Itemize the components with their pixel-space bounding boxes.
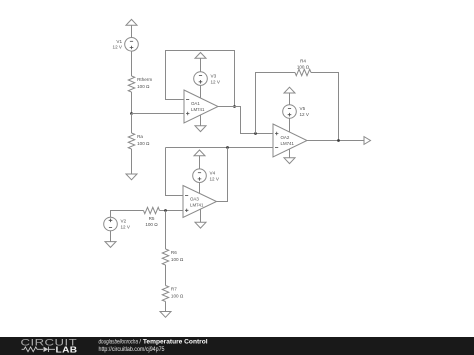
- svg-text:OA1: OA1: [191, 101, 200, 106]
- svg-text:100 Ω: 100 Ω: [171, 294, 184, 299]
- op-amp OA1: [184, 90, 218, 123]
- svg-text:http://circuitlab.com/cj94p75: http://circuitlab.com/cj94p75: [99, 346, 165, 353]
- svg-text:V2: V2: [121, 219, 127, 224]
- wire V2 up to R5: [111, 211, 144, 218]
- resistor R7: [162, 286, 168, 302]
- wire OA1 feedback output to inverting input: [166, 51, 235, 107]
- label R5 100 ohm: [145, 216, 158, 227]
- svg-text:R7: R7: [171, 287, 177, 292]
- wire V3 to OA1 V+ pin: [200, 85, 202, 97]
- op-amp OA3: [183, 186, 217, 218]
- power arrow above V3: [195, 53, 206, 59]
- svg-text:100 Ω: 100 Ω: [171, 257, 184, 262]
- wire R6 to R7: [165, 265, 167, 286]
- label Rtherm 100 ohm: [137, 77, 152, 89]
- label V1 12V: [113, 39, 123, 50]
- wire R7 to ground: [165, 302, 167, 312]
- footer bar: [0, 337, 474, 355]
- wire OA1 output to OA2 noninverting input: [218, 107, 273, 134]
- svg-text:R5: R5: [149, 216, 155, 221]
- svg-text:/: /: [139, 339, 141, 346]
- power arrow above V5: [284, 87, 295, 93]
- svg-text:12 V: 12 V: [211, 79, 221, 84]
- wire V5 to OA2 V+ pin: [289, 118, 291, 132]
- resistor Rtherm: [128, 76, 134, 92]
- svg-text:LM741: LM741: [281, 141, 295, 146]
- ground below V2: [105, 242, 116, 248]
- voltage source V1: [125, 38, 139, 52]
- negative rail arrow below OA1: [195, 126, 206, 132]
- junction output and R4: [337, 139, 340, 142]
- wire R4 left vertical: [256, 73, 296, 134]
- junction node A: [130, 112, 133, 115]
- svg-text:LAB: LAB: [56, 346, 78, 355]
- svg-text:V3: V3: [211, 73, 217, 78]
- svg-text:R4: R4: [300, 58, 306, 63]
- power arrow above V1: [126, 19, 137, 25]
- op-amp OA2: [273, 124, 307, 157]
- wire OA2 V- pin to arrow: [289, 149, 291, 158]
- ground bottom: [160, 312, 171, 318]
- svg-text:12 V: 12 V: [113, 45, 123, 50]
- voltage source V5: [283, 105, 297, 119]
- negative rail arrow below OA3: [195, 222, 206, 228]
- voltage source V3: [194, 72, 208, 86]
- svg-text:Ra: Ra: [137, 134, 143, 139]
- svg-text:V1: V1: [116, 39, 122, 44]
- wire arrow to V5: [289, 93, 291, 105]
- negative rail arrow below OA2: [284, 158, 295, 164]
- output terminal: [364, 137, 371, 145]
- label R4 100 ohm: [297, 58, 310, 69]
- wire arrow to V4: [199, 156, 201, 169]
- voltage source V4: [193, 169, 207, 183]
- wire Ra to ground: [131, 149, 133, 174]
- label OA2 LM741: [281, 135, 295, 146]
- wire OA3 V- pin to arrow: [200, 209, 202, 222]
- voltage source V2: [104, 217, 118, 231]
- wire OA3 feedback to inverting input: [166, 148, 184, 196]
- wire R4 right vertical to output net: [311, 73, 339, 141]
- wire OA2 inverting input net: [166, 147, 274, 149]
- svg-text:LM741: LM741: [191, 107, 205, 112]
- wire arrow to V3: [200, 58, 202, 72]
- wire node A to Ra: [131, 114, 133, 134]
- svg-text:100 Ω: 100 Ω: [297, 65, 310, 70]
- wire node A to OA1 noninverting input: [132, 113, 185, 115]
- ground left column: [126, 174, 137, 180]
- svg-text:Temperature Control: Temperature Control: [143, 339, 208, 346]
- wire Rtherm to node A: [131, 92, 133, 114]
- wire OA1 V- pin to arrow: [200, 115, 202, 126]
- svg-text:12 V: 12 V: [210, 176, 220, 181]
- label R6 100 ohm: [171, 250, 184, 262]
- label OA1 LM741: [191, 101, 205, 112]
- svg-text:douglasbellonrocha: douglasbellonrocha: [99, 339, 139, 346]
- label Ra 100 ohm: [137, 134, 150, 146]
- junction OA1 output feedback: [233, 105, 236, 108]
- label OA3 LM741: [190, 197, 204, 208]
- svg-text:V4: V4: [210, 170, 216, 175]
- wire R5 to OA3 plus input: [160, 210, 184, 212]
- label V3 12V: [211, 73, 221, 84]
- svg-text:100 Ω: 100 Ω: [137, 141, 150, 146]
- label V5 12V: [300, 106, 310, 117]
- resistor R4: [295, 69, 311, 75]
- svg-text:Rtherm: Rtherm: [137, 77, 152, 82]
- wire V2 to ground: [110, 231, 112, 242]
- wire V1 to Rtherm: [131, 51, 133, 76]
- svg-text:OA3: OA3: [190, 197, 199, 202]
- resistor R5: [144, 207, 160, 213]
- wire V4 to OA3 V+ pin: [199, 183, 201, 194]
- svg-text:12 V: 12 V: [121, 225, 131, 230]
- resistor Ra: [128, 133, 134, 149]
- svg-text:V5: V5: [300, 106, 306, 111]
- svg-text:LM741: LM741: [190, 203, 204, 208]
- label V2 12V: [121, 219, 131, 230]
- wire arrow to V1: [131, 25, 133, 37]
- wire OA2 output: [307, 140, 364, 142]
- junction node B: [164, 209, 167, 212]
- wire node B to R6: [165, 211, 167, 250]
- power arrow above V4: [194, 150, 205, 156]
- svg-text:12 V: 12 V: [300, 112, 310, 117]
- svg-text:100 Ω: 100 Ω: [145, 222, 158, 227]
- label R7 100 ohm: [171, 287, 184, 299]
- svg-text:R6: R6: [171, 250, 177, 255]
- resistor R6: [162, 249, 168, 265]
- junction R4 left and OA2 plus net: [254, 132, 257, 135]
- wire OA3 output up to feedback: [217, 148, 228, 202]
- label V4 12V: [210, 170, 220, 181]
- CircuitLab logo resistor and diode: [22, 347, 55, 352]
- junction OA3 output node: [226, 146, 229, 149]
- svg-text:OA2: OA2: [281, 135, 290, 140]
- svg-text:100 Ω: 100 Ω: [137, 84, 150, 89]
